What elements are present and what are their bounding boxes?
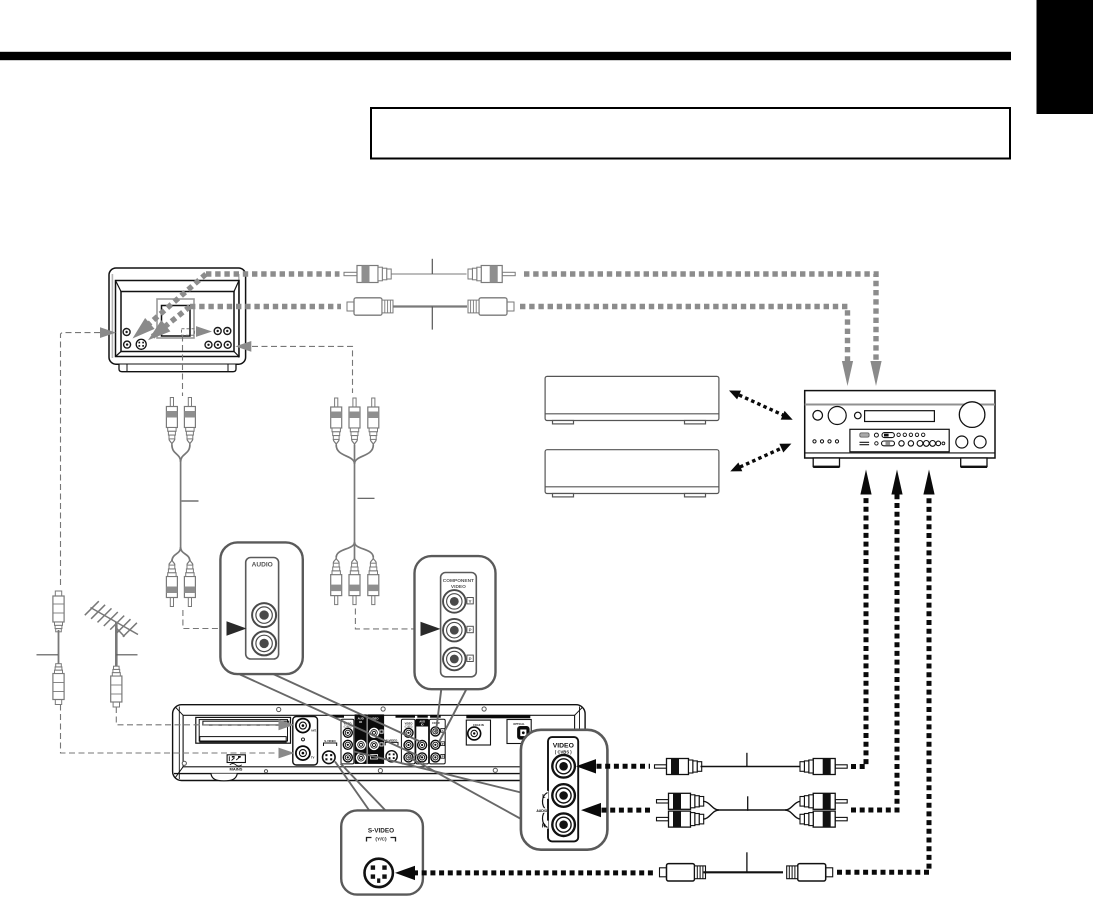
double arrow box2-receiver <box>740 448 783 468</box>
panel screws <box>182 707 497 773</box>
arrow into TV (aerial link) <box>100 327 116 338</box>
aerial coax cable <box>53 591 64 632</box>
antenna in/out block <box>293 717 318 766</box>
svg-text:MAINS: MAINS <box>230 767 243 772</box>
svg-text:IO: IO <box>421 723 424 727</box>
TV out jack <box>296 746 310 760</box>
optical in <box>507 720 531 744</box>
arrow into s-video jack <box>395 866 415 880</box>
S-VIDEO callout bubble <box>341 810 423 894</box>
column component out <box>429 719 445 764</box>
arrow into recorder ANTENNA in <box>279 719 295 730</box>
svg-text:P: P <box>469 657 472 662</box>
arrow into VIDEO jack <box>576 759 596 773</box>
component Y jack <box>443 590 466 613</box>
TV jack video-in <box>123 329 130 336</box>
TV right jacks row2 <box>205 341 212 348</box>
audio L jack <box>252 603 276 627</box>
arrow scart to right jacks <box>196 326 212 337</box>
dashed node rect at scart <box>182 329 195 335</box>
svg-text:(Y/C): (Y/C) <box>375 837 387 843</box>
audio cinch bundle (2 plugs) <box>166 398 177 445</box>
TV scart box <box>157 299 194 338</box>
arrow into AUDIO jacks <box>581 803 601 817</box>
s-video jack big <box>365 859 393 887</box>
video cable TV-to-receiver : dotted run <box>138 274 877 361</box>
antenna plug <box>111 666 122 707</box>
s-video out 2 <box>385 742 398 745</box>
antenna mast / downlead <box>115 622 118 668</box>
arrow into TV right side <box>235 341 251 352</box>
RCA video cable (top) <box>344 266 391 283</box>
arrow up into receiver (s-video) <box>923 470 934 495</box>
TV pedestal <box>119 365 236 372</box>
arrow into COMPONENT callout <box>421 622 441 636</box>
TV (rear view) <box>109 268 246 364</box>
AUDIO callout bubble <box>220 542 302 674</box>
svg-text:OPTICAL: OPTICAL <box>513 722 525 726</box>
svg-text:VIDEO: VIDEO <box>451 584 466 590</box>
arrow up into receiver (audio) <box>891 470 902 495</box>
svg-text:ANT.: ANT. <box>311 730 317 733</box>
s-video cable TV-to-receiver : dotted run <box>153 307 848 362</box>
DVD recorder rear panel <box>173 705 585 781</box>
S-video cable (top) <box>347 298 393 315</box>
callout leader audio <box>240 673 421 757</box>
VIDEO/AUDIO callout bubble <box>521 730 608 850</box>
callout leader s-video <box>335 762 387 812</box>
arrow into receiver (video) <box>870 361 881 386</box>
double arrow box1-receiver <box>739 395 784 416</box>
svg-text:AUDIO: AUDIO <box>536 809 547 813</box>
column AV1 audio <box>416 719 429 764</box>
TV jack audio-in <box>124 341 131 348</box>
arrow into AUDIO callout <box>227 621 247 635</box>
s-video patch cable (bottom) <box>413 492 929 873</box>
svg-text:COMPONENT: COMPONENT <box>443 578 474 584</box>
audio R jack <box>252 631 276 655</box>
COMPONENT VIDEO callout bubble <box>415 556 496 689</box>
DIGITAL AUDIO IN label <box>466 715 530 718</box>
mains logo <box>227 755 245 763</box>
arrow up into receiver (video) <box>860 470 871 495</box>
black component block <box>368 714 385 764</box>
svg-text:S-VIDEO: S-VIDEO <box>368 828 394 835</box>
callout leader component <box>436 688 467 743</box>
dashed wire aerial to recorder ANTENNA in <box>116 707 278 725</box>
AV receiver <box>805 391 995 467</box>
ANTENNA jack <box>296 719 310 733</box>
svg-text:AUDIO: AUDIO <box>252 562 273 569</box>
arrow into recorder TV out <box>279 748 295 759</box>
TV s-video jack <box>136 339 146 349</box>
arrow into TV video jack <box>128 318 155 344</box>
component Pb jack <box>443 619 466 642</box>
audio patch cable (bottom) <box>602 492 898 810</box>
svg-text:TV: TV <box>311 755 315 759</box>
video cvbs jack <box>552 755 575 778</box>
digital coax in <box>466 720 490 745</box>
video patch cable (bottom) <box>597 492 867 767</box>
page corner tab <box>1037 0 1093 114</box>
svg-text:R: R <box>542 824 546 830</box>
audio R jack <box>552 813 575 836</box>
jack field: s-video out 1 <box>324 743 337 746</box>
dashed wire coax to recorder TV out <box>61 705 279 754</box>
top rule bar <box>0 52 1011 60</box>
svg-text:S-VIDEO: S-VIDEO <box>324 739 336 743</box>
svg-text:Y: Y <box>469 599 472 604</box>
callout leader video/audio <box>354 752 523 820</box>
cassette slot <box>196 717 291 743</box>
svg-text:P: P <box>442 755 444 759</box>
column AV1 video <box>401 719 415 764</box>
dashed wire TV left to coax <box>61 333 423 629</box>
TV right jacks row1 <box>214 328 221 335</box>
arrow into TV s-video jack <box>143 320 170 346</box>
svg-text:VIDEO: VIDEO <box>553 743 574 750</box>
aerial antenna <box>85 601 138 637</box>
black audio block 1 <box>355 714 367 764</box>
column label bars <box>333 715 344 718</box>
component video bundle (3 plugs) <box>331 398 342 445</box>
arrow into receiver (s-video) <box>842 361 853 386</box>
svg-text:P: P <box>469 628 472 633</box>
svg-text:VIDEO: VIDEO <box>405 722 413 725</box>
svg-text:P: P <box>442 742 444 746</box>
hifi component box 1 <box>545 376 719 424</box>
note box <box>371 108 1010 159</box>
audio L jack <box>552 784 575 807</box>
column AV2 video out <box>341 719 354 764</box>
component Pr jack <box>443 648 466 671</box>
hifi component box 2 <box>545 450 719 497</box>
